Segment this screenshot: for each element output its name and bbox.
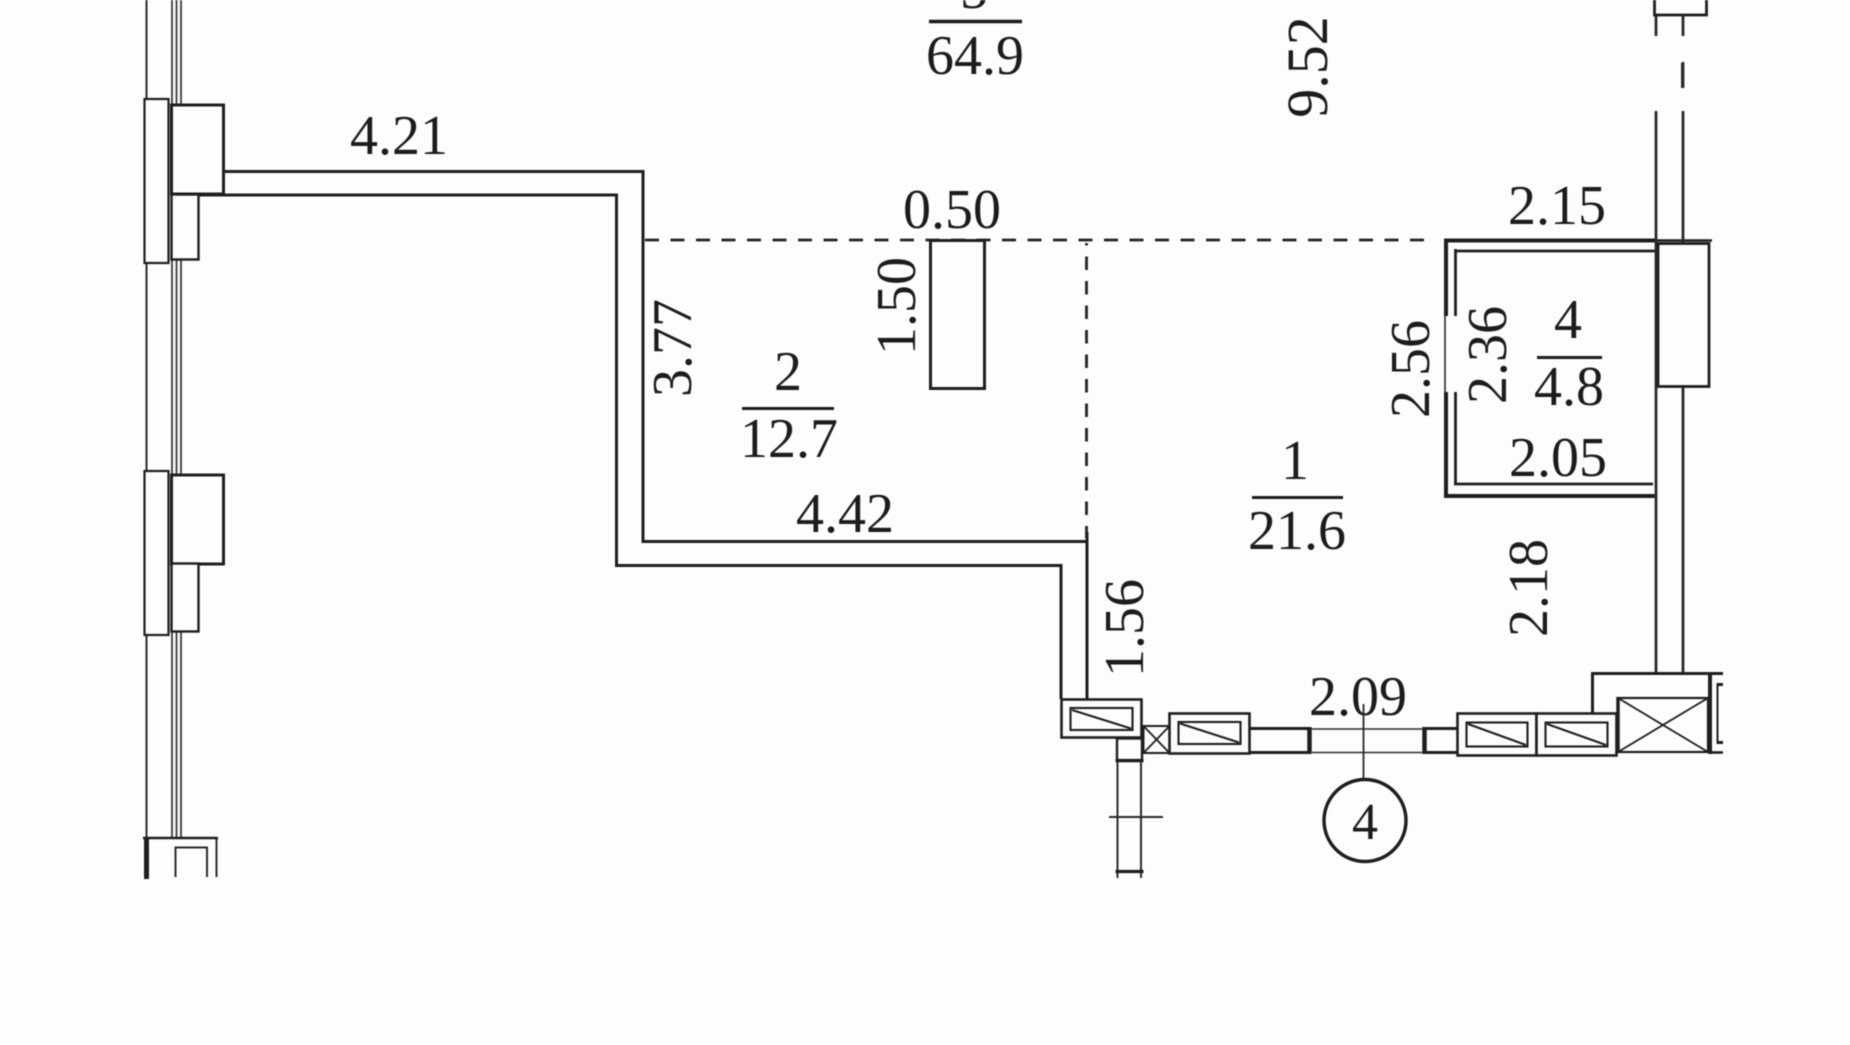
column 0.50x1.50 — [931, 241, 985, 389]
right bracket mark — [1717, 683, 1723, 744]
svg-text:4.21: 4.21 — [350, 105, 448, 167]
svg-text:0.50: 0.50 — [903, 179, 1001, 241]
west sill post — [144, 838, 149, 879]
svg-text:64.9: 64.9 — [926, 25, 1024, 87]
window W3 diagonal — [1468, 724, 1526, 745]
svg-text:2.15: 2.15 — [1508, 175, 1606, 237]
east shaft box — [1658, 244, 1709, 387]
wall segment B cap — [1422, 727, 1427, 754]
west glazing triple line — [172, 0, 181, 838]
window W4 diagonal — [1547, 724, 1606, 745]
pillar big block upper — [172, 105, 224, 194]
window W4 inner — [1546, 723, 1608, 747]
label 64.9 fraction line — [929, 20, 1022, 23]
wall room2 left outer vertical — [642, 170, 645, 542]
west sill U-frame — [175, 839, 217, 877]
window W2 diagonal — [1180, 724, 1239, 743]
wall 4.21 outer line — [222, 170, 645, 173]
pier X2 left thick edge — [1616, 697, 1620, 753]
wall segment B top/bottom — [1423, 727, 1458, 730]
svg-text:1.56: 1.56 — [1094, 579, 1156, 677]
svg-text:2: 2 — [774, 341, 802, 403]
svg-text:1.50: 1.50 — [866, 257, 928, 355]
room2 fraction line — [742, 407, 834, 410]
pier X1 — [1144, 726, 1170, 753]
svg-text:2.05: 2.05 — [1509, 427, 1607, 489]
svg-text:4: 4 — [1352, 794, 1378, 851]
pillar big block lower — [172, 475, 224, 564]
room4 left wall inner upper — [1454, 249, 1457, 316]
room4 bottom wall inner — [1454, 483, 1653, 486]
window W1 inner — [1071, 708, 1133, 730]
svg-text:4.8: 4.8 — [1534, 356, 1604, 418]
south stub walls — [1117, 761, 1119, 878]
room4 top wall outer — [1444, 239, 1657, 243]
wall 4.21 inner line — [198, 194, 618, 197]
east wall white patches — [1645, 36, 1707, 111]
window W2 inner — [1179, 722, 1241, 744]
wall room2 left inner vertical — [615, 194, 618, 567]
room1 fraction line — [1252, 496, 1343, 499]
marker circle 4 — [1324, 780, 1406, 862]
dashed boundary horizontal — [645, 239, 1434, 242]
east wall inner line — [1655, 15, 1658, 672]
window W2 outer — [1170, 714, 1250, 754]
svg-text:9.52: 9.52 — [1275, 16, 1340, 118]
dashed boundary vertical — [1085, 243, 1088, 538]
pillar outer frame lower — [145, 471, 169, 635]
room4 fraction line — [1537, 356, 1602, 359]
pillar small block upper — [172, 195, 199, 260]
wall 4.42 top line — [642, 540, 1089, 543]
room4 top wall inner — [1456, 250, 1656, 253]
wall segment A end cap — [1307, 727, 1312, 754]
window W3 outer — [1458, 714, 1537, 756]
window W4 outer — [1537, 714, 1617, 756]
east wall mark remnant — [1681, 63, 1684, 88]
svg-text:5: 5 — [960, 0, 988, 21]
south-east bottom ext — [1708, 751, 1723, 754]
east wall top box — [1655, 0, 1707, 15]
room4 left wall inner lower — [1454, 392, 1457, 485]
opening 2.09 lines — [1312, 728, 1422, 730]
window W1 diagonal — [1072, 710, 1131, 729]
west facade line — [146, 0, 148, 838]
pillar small block lower — [172, 564, 199, 632]
pier X2 big — [1618, 698, 1708, 752]
south stub tick — [1109, 816, 1163, 818]
south stub connector — [1117, 739, 1142, 762]
svg-text:4: 4 — [1554, 289, 1582, 351]
east wall outer line — [1682, 15, 1685, 672]
south-east cap — [1708, 672, 1712, 754]
south stub bottom edge thick — [1116, 759, 1144, 762]
svg-text:2.18: 2.18 — [1498, 539, 1560, 637]
south-east step vertical — [1591, 672, 1594, 714]
window W3 inner — [1467, 723, 1528, 747]
leader line — [1363, 704, 1365, 780]
room4 left wall outer lower — [1444, 392, 1448, 498]
pillar outer frame upper — [145, 99, 169, 263]
wall segment A top/bottom — [1250, 727, 1311, 730]
svg-text:2.36: 2.36 — [1457, 306, 1519, 404]
svg-text:4.42: 4.42 — [796, 483, 894, 545]
svg-text:12.7: 12.7 — [740, 408, 838, 470]
west wall bottom cap — [143, 837, 218, 840]
room4 left wall outer upper — [1444, 239, 1448, 317]
svg-text:2.09: 2.09 — [1309, 666, 1407, 728]
wall 1.56 left vertical — [1060, 564, 1063, 699]
south-east step horizontal — [1591, 672, 1723, 675]
svg-text:1: 1 — [1281, 430, 1309, 492]
svg-text:21.6: 21.6 — [1248, 500, 1346, 562]
svg-text:2.56: 2.56 — [1380, 320, 1442, 418]
window W1 outer — [1062, 700, 1142, 738]
svg-text:3.77: 3.77 — [642, 299, 704, 397]
wall 1.56 right vertical — [1086, 532, 1089, 699]
wall 4.42 bottom line — [615, 564, 1063, 567]
south stub end cap — [1116, 870, 1144, 873]
room4 door line — [1444, 316, 1446, 392]
room4 bottom wall outer — [1444, 494, 1657, 498]
